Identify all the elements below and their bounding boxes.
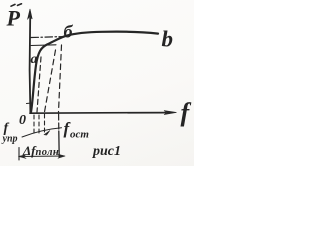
svg-text:полн: полн — [36, 147, 60, 158]
svg-text:упр: упр — [2, 134, 18, 145]
svg-text:рис1: рис1 — [92, 144, 121, 159]
svg-text:f: f — [181, 98, 192, 127]
svg-text:b: b — [162, 27, 174, 52]
svg-text:P: P — [6, 6, 21, 31]
svg-text:б: б — [64, 22, 74, 42]
svg-text:ост: ост — [70, 129, 89, 141]
svg-text:0: 0 — [19, 113, 26, 128]
svg-text:а: а — [31, 52, 38, 67]
